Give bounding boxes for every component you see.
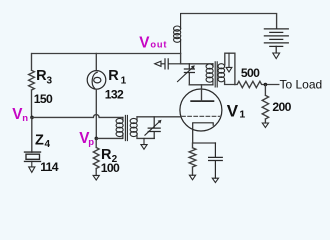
- resistor R1 (circle symbol): [87, 71, 106, 90]
- wire B+ rail: [32, 53, 181, 55]
- triode V1 plate lead: [201, 85, 203, 101]
- label V1: [227, 101, 246, 120]
- svg-text:100: 100: [101, 161, 120, 175]
- svg-text:132: 132: [105, 88, 124, 102]
- label Vp: [79, 130, 94, 148]
- wire Vn horizontal to T1 (hops over R1 lead): [32, 115, 123, 118]
- capacitor Ck cathode bypass: [209, 143, 223, 178]
- transformer T2 left winding: [206, 64, 213, 85]
- triode V1 grid (dashed): [182, 115, 221, 117]
- wire tank bottom: [189, 84, 213, 86]
- svg-text:To Load: To Load: [280, 77, 323, 91]
- svg-text:out: out: [150, 40, 167, 50]
- triode V1 envelope: [180, 89, 222, 131]
- wire B+ node down: [180, 54, 182, 64]
- resistor 500: [235, 81, 279, 87]
- node Vp junction dot: [95, 137, 99, 141]
- wire grid wire from T1 to tube: [137, 116, 180, 118]
- transformer T1 core: [125, 115, 127, 140]
- wire R1 bottom lead to Vp: [95, 89, 97, 138]
- svg-text:1: 1: [121, 75, 127, 86]
- wire T1 secondary bottom lead: [137, 137, 154, 139]
- svg-text:V: V: [227, 101, 239, 120]
- svg-text:3: 3: [47, 76, 53, 87]
- variable capacitor C2 (grid tank): [145, 117, 162, 138]
- svg-text:150: 150: [34, 92, 53, 106]
- output arrow (to Vout): [155, 61, 161, 66]
- label R3: [36, 68, 52, 87]
- ground arrow below R2: [93, 175, 99, 180]
- ground arrow below 200: [262, 123, 268, 128]
- svg-text:p: p: [88, 137, 94, 148]
- triode V1 plate: [191, 100, 213, 102]
- ground arrow below Rk: [189, 175, 195, 180]
- label R1: [108, 68, 126, 86]
- svg-text:Z: Z: [35, 133, 44, 149]
- resistor R2: [93, 138, 99, 175]
- crystal Z4 lead wire: [31, 117, 33, 152]
- label Vn: [12, 106, 28, 124]
- wire T2 secondary top lead up and over: [225, 53, 235, 84]
- svg-text:R: R: [36, 68, 47, 84]
- ground arrow below Ck: [212, 178, 218, 182]
- capacitor Cout coupling: [161, 59, 181, 69]
- wire cathode junction to bypass cap: [193, 142, 216, 144]
- node junction dot To Load: [264, 83, 268, 87]
- transformer T1 left winding: [116, 117, 123, 138]
- wire Vp to T1 bottom: [96, 137, 122, 139]
- svg-text:4: 4: [45, 139, 51, 150]
- svg-text:R: R: [108, 68, 119, 84]
- wire tank top: [181, 63, 213, 65]
- resistor R3: [29, 54, 35, 118]
- label Z4: [35, 133, 51, 151]
- wire T2 secondary bottom lead: [225, 81, 235, 85]
- label Vout: [139, 35, 167, 52]
- wire top rail to battery: [181, 14, 277, 29]
- label R2: [101, 147, 118, 165]
- battery B1: [264, 29, 288, 53]
- svg-text:200: 200: [272, 100, 291, 114]
- resistor 200: [262, 85, 268, 124]
- transformer T2 core: [215, 62, 217, 87]
- variable capacitor C1 (plate tank): [178, 64, 195, 85]
- svg-text:V: V: [139, 35, 150, 52]
- ground arrow on T1 secondary bottom: [141, 138, 147, 149]
- svg-text:114: 114: [40, 160, 59, 174]
- svg-text:500: 500: [241, 66, 260, 80]
- resistor Rk cathode: [189, 143, 196, 175]
- crystal Z4: [25, 152, 41, 161]
- resistor R1 lead top: [95, 54, 97, 71]
- transformer T2 right winding: [218, 64, 225, 82]
- inductor L1 RF choke: [174, 14, 181, 54]
- node Vn junction dot: [30, 116, 34, 120]
- triode V1 cathode: [193, 123, 214, 143]
- ground arrow on T2 secondary top: [226, 53, 232, 72]
- svg-text:1: 1: [239, 108, 245, 120]
- ground arrow below Z4: [29, 161, 35, 172]
- ground arrow below battery: [273, 53, 280, 59]
- svg-text:n: n: [22, 113, 28, 124]
- transformer T1 right winding: [130, 117, 137, 139]
